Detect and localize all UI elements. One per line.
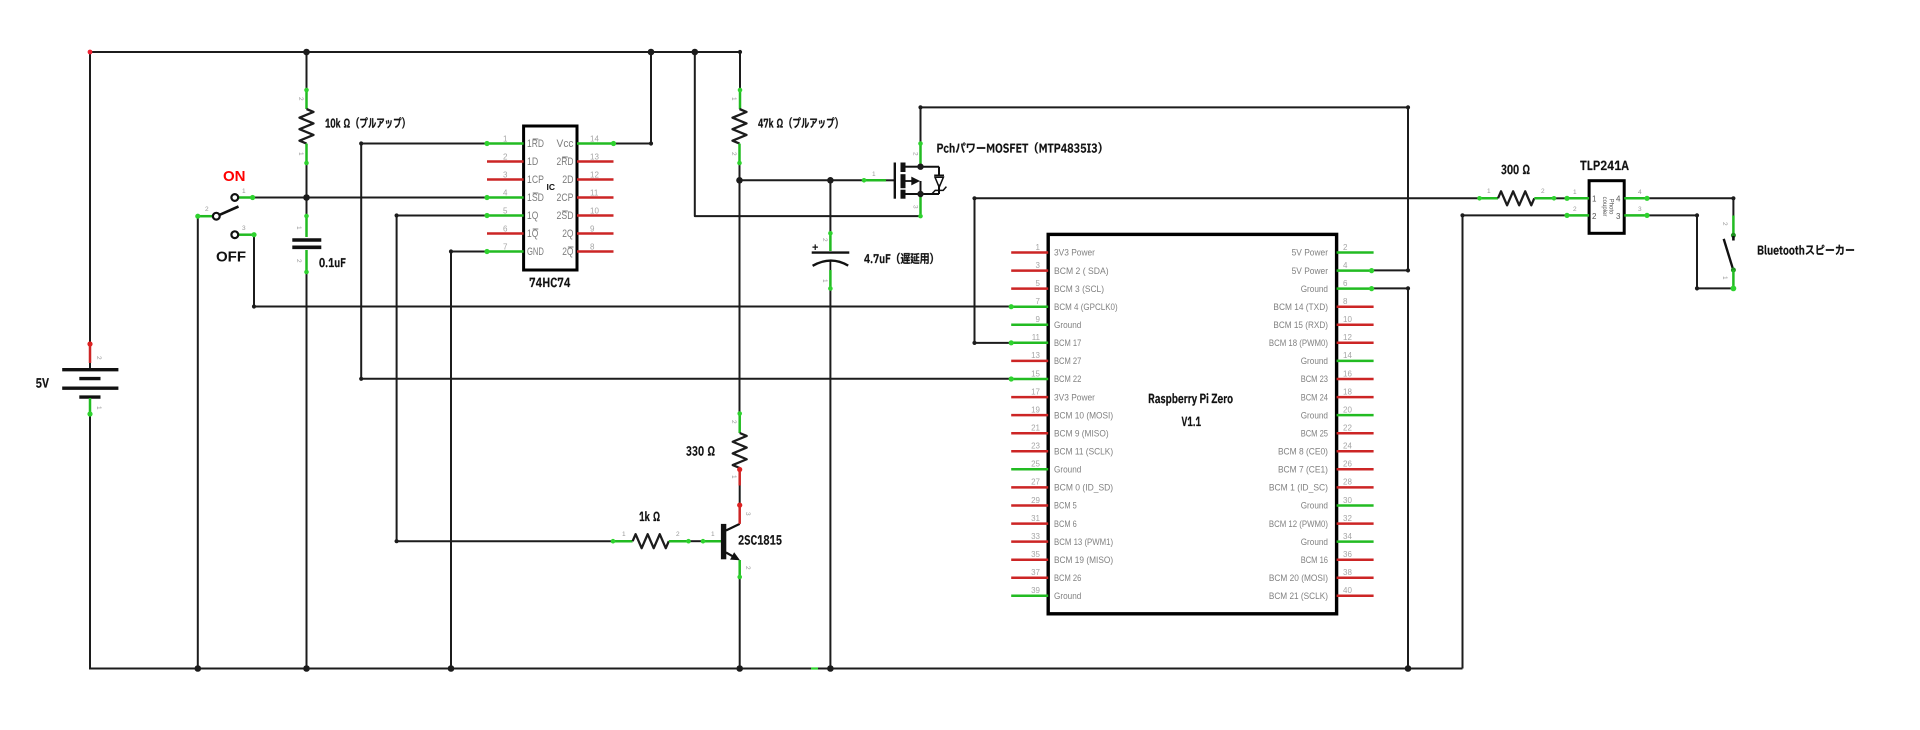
svg-text:2: 2 <box>744 566 751 570</box>
svg-text:20: 20 <box>1343 405 1352 414</box>
svg-text:2: 2 <box>676 531 680 538</box>
svg-text:29: 29 <box>1031 496 1040 505</box>
svg-text:12: 12 <box>590 170 599 179</box>
wire: 47k to gate node <box>739 163 741 180</box>
label: Raspberry Pi Zero <box>1149 393 1233 405</box>
svg-text:21: 21 <box>1031 424 1040 433</box>
node: gate/47k/330 junction <box>736 177 743 184</box>
svg-text:8: 8 <box>590 242 595 251</box>
svg-text:32: 32 <box>1343 514 1352 523</box>
svg-text:1: 1 <box>1592 195 1597 204</box>
RasPi pin 29 (left) and pin 30 (right) with numbers and labels <box>1011 504 1048 507</box>
svg-text:1Q: 1Q <box>527 210 539 222</box>
svg-text:BCM 9 (MISO): BCM 9 (MISO) <box>1054 428 1109 438</box>
svg-text:Photo: Photo <box>1608 199 1614 215</box>
MOSFET body diode <box>934 174 944 176</box>
svg-text:Ground: Ground <box>1301 356 1328 366</box>
svg-text:2Q: 2Q <box>562 228 574 240</box>
svg-text:2Q: 2Q <box>562 246 574 258</box>
label: R1 value 10k ohm pullup <box>325 117 404 128</box>
svg-text:2D: 2D <box>562 174 573 186</box>
svg-text:9: 9 <box>1036 315 1041 324</box>
RasPi pin 17 (left) and pin 18 (right) with numbers and labels <box>1011 396 1048 399</box>
svg-text:1: 1 <box>1487 188 1491 195</box>
IC U1 pin 6 (left) and pin 9 (right) with numbers and labels <box>487 232 524 235</box>
transistor Q1 MOSFET MTP4835I3 <box>919 144 922 165</box>
svg-text:coupler: coupler <box>1601 197 1607 217</box>
svg-text:1: 1 <box>730 475 737 479</box>
svg-text:1: 1 <box>711 531 715 538</box>
svg-text:2: 2 <box>503 152 508 161</box>
svg-text:BCM 21 (SCLK): BCM 21 (SCLK) <box>1269 591 1328 601</box>
IC U1 pin 2 (left) and pin 13 (right) with numbers and labels <box>487 160 524 163</box>
svg-text:Ground: Ground <box>1054 320 1081 330</box>
wire: IC pin5 1Q to 1k resistor <box>397 216 613 542</box>
wire: TLP241A pin4 to speaker switch <box>1647 198 1733 215</box>
svg-text:14: 14 <box>590 134 599 143</box>
svg-text:26: 26 <box>1343 460 1352 469</box>
svg-text:2: 2 <box>95 356 102 360</box>
label: U3 name TLP241A <box>1580 161 1628 170</box>
wire: TLP241A pin2 to ground rail <box>1463 215 1568 668</box>
svg-text:BCM 16: BCM 16 <box>1301 555 1328 565</box>
svg-text:3: 3 <box>242 225 246 232</box>
svg-text:28: 28 <box>1343 478 1352 487</box>
svg-text:2: 2 <box>730 152 737 156</box>
svg-text:Vcc: Vcc <box>557 138 574 150</box>
RasPi pin 25 (left) and pin 26 (right) with numbers and labels <box>1011 468 1048 471</box>
wire: 330 to collector <box>739 486 741 506</box>
svg-text:2: 2 <box>1541 188 1545 195</box>
svg-text:2: 2 <box>730 420 737 424</box>
capacitor C2 4.7uF delay <box>829 233 832 251</box>
svg-text:Ground: Ground <box>1301 284 1328 294</box>
wire: 1k to transistor base <box>689 540 704 542</box>
wire: node A to 0.1uF <box>306 198 308 217</box>
wire: battery minus down <box>89 414 91 669</box>
svg-text:BCM 25: BCM 25 <box>1301 428 1328 438</box>
svg-text:1RD: 1RD <box>527 138 544 150</box>
wire: 5V top rail <box>90 51 740 53</box>
IC U1 pin 7 (left) and pin 8 (right) with numbers and labels <box>487 250 524 253</box>
label: V1.1 <box>1182 417 1201 426</box>
node: rail-Vcc junction <box>648 49 655 56</box>
svg-text:BCM 19 (MISO): BCM 19 (MISO) <box>1054 555 1113 565</box>
svg-text:2: 2 <box>1343 243 1348 252</box>
svg-text:1SD: 1SD <box>527 192 544 204</box>
battery BT1 5V <box>89 344 92 363</box>
label: R2 value 47k ohm pullup <box>758 117 837 128</box>
IC U1 pin 4 (left) and pin 11 (right) with numbers and labels <box>487 196 524 199</box>
svg-text:30: 30 <box>1343 496 1352 505</box>
svg-text:2: 2 <box>295 259 302 263</box>
wire: 4.7uF to ground rail <box>829 289 831 669</box>
RasPi pin 23 (left) and pin 24 (right) with numbers and labels <box>1011 450 1048 453</box>
svg-text:BCM 7 (CE1): BCM 7 (CE1) <box>1278 465 1328 475</box>
svg-text:11: 11 <box>590 188 599 197</box>
svg-text:13: 13 <box>590 152 599 161</box>
bend points <box>738 50 742 54</box>
IC U1 pin 1 (left) and pin 14 (right) with numbers and labels <box>487 142 524 145</box>
svg-text:9: 9 <box>590 224 595 233</box>
label: R5 value 300 ohm <box>1501 165 1529 175</box>
wire: battery plus to rail <box>89 52 91 344</box>
IC U2 Raspberry Pi Zero <box>1048 234 1336 613</box>
svg-text:Ground: Ground <box>1301 410 1328 420</box>
RasPi pin 13 (left) and pin 14 (right) with numbers and labels <box>1011 360 1048 363</box>
RasPi pin 5 (left) and pin 6 (right) with numbers and labels <box>1011 287 1048 290</box>
svg-text:Ground: Ground <box>1301 537 1328 547</box>
wire: RasPi BCM17 pin11 to 300 ohm resistor <box>975 198 1480 343</box>
svg-text:2: 2 <box>1721 222 1728 226</box>
RasPi pin 39 (left) and pin 40 (right) with numbers and labels <box>1011 595 1048 598</box>
switch S1 lever <box>219 207 238 215</box>
RasPi pin 15 (left) and pin 16 (right) with numbers and labels <box>1011 378 1048 381</box>
node: rail-10k junction <box>303 49 310 56</box>
svg-text:13: 13 <box>1031 351 1040 360</box>
svg-text:1: 1 <box>1036 243 1041 252</box>
svg-text:BCM 4 (GPCLK0): BCM 4 (GPCLK0) <box>1054 302 1118 312</box>
label: C1 value 0.1uF <box>319 258 345 267</box>
svg-text:3: 3 <box>744 512 751 516</box>
svg-text:5: 5 <box>1036 279 1041 288</box>
wire: OFF contact to RasPi BCM4 pin7 <box>254 235 1011 307</box>
svg-text:36: 36 <box>1343 550 1352 559</box>
svg-text:1: 1 <box>297 152 304 156</box>
wire: IC pin7 GND to ground rail <box>451 252 487 669</box>
svg-text:1: 1 <box>503 134 508 143</box>
svg-text:BCM 5: BCM 5 <box>1054 501 1077 511</box>
svg-text:OFF: OFF <box>216 249 246 266</box>
svg-text:1Q: 1Q <box>527 228 539 240</box>
svg-text:ON: ON <box>223 168 246 185</box>
wire: MOSFET drain to RasPi 5V pin4 <box>921 107 1409 270</box>
capacitor C1 0.1uF <box>305 216 308 237</box>
svg-text:1: 1 <box>1721 276 1728 280</box>
label: 74HC74 <box>530 278 570 288</box>
svg-text:5: 5 <box>503 206 508 215</box>
svg-text:Ground: Ground <box>1054 465 1081 475</box>
RasPi pin 31 (left) and pin 32 (right) with numbers and labels <box>1011 522 1048 525</box>
svg-text:1: 1 <box>242 188 246 195</box>
svg-text:34: 34 <box>1343 532 1352 541</box>
svg-text:BCM 8 (CE0): BCM 8 (CE0) <box>1278 447 1328 457</box>
svg-text:BCM 22: BCM 22 <box>1054 374 1081 384</box>
RasPi pin 37 (left) and pin 38 (right) with numbers and labels <box>1011 577 1048 580</box>
svg-text:BCM 1 (ID_SC): BCM 1 (ID_SC) <box>1269 483 1328 493</box>
svg-text:2: 2 <box>1592 212 1597 221</box>
svg-text:BCM 24: BCM 24 <box>1301 392 1328 402</box>
label: MOSFET name <box>937 142 1101 153</box>
svg-text:8: 8 <box>1343 297 1348 306</box>
svg-text:Ground: Ground <box>1301 501 1328 511</box>
svg-text:10: 10 <box>590 206 599 215</box>
svg-text:37: 37 <box>1031 568 1040 577</box>
svg-text:BCM 26: BCM 26 <box>1054 573 1081 583</box>
svg-text:17: 17 <box>1031 387 1040 396</box>
svg-text:BCM 15 (RXD): BCM 15 (RXD) <box>1273 320 1328 330</box>
svg-text:5V Power: 5V Power <box>1292 266 1328 276</box>
wire: rail to 10k <box>306 52 308 90</box>
svg-text:2: 2 <box>912 152 919 156</box>
svg-text:1: 1 <box>295 226 302 230</box>
svg-text:IC: IC <box>547 182 556 192</box>
svg-text:12: 12 <box>1343 333 1352 342</box>
svg-text:35: 35 <box>1031 550 1040 559</box>
label: C2 value 4.7uF <box>864 253 933 264</box>
svg-text:39: 39 <box>1031 586 1040 595</box>
svg-text:31: 31 <box>1031 514 1040 523</box>
svg-text:5V Power: 5V Power <box>1292 248 1328 258</box>
wire: IC pin1 1RD to RasPi BCM22 pin15 <box>361 144 1011 379</box>
RasPi pin 7 (left) and pin 8 (right) with numbers and labels <box>1011 305 1048 308</box>
wire: ground bottom rail <box>89 668 1463 670</box>
svg-text:3V3 Power: 3V3 Power <box>1054 248 1095 258</box>
node: gate/4.7uF junction <box>827 177 834 184</box>
wire: 300 ohm to TLP241A pin1 <box>1554 197 1567 199</box>
svg-text:19: 19 <box>1031 405 1040 414</box>
svg-text:1: 1 <box>95 406 102 410</box>
resistor R1 10k pullup <box>305 90 308 109</box>
svg-text:BCM 10 (MOSI): BCM 10 (MOSI) <box>1054 410 1113 420</box>
label: R3 value 330 ohm <box>686 446 714 456</box>
wire: gate node down to 330 resistor <box>739 180 741 413</box>
svg-text:3V3 Power: 3V3 Power <box>1054 392 1095 402</box>
wire: ON switch to IC pin4 <box>253 197 487 199</box>
RasPi pin 27 (left) and pin 28 (right) with numbers and labels <box>1011 486 1048 489</box>
svg-text:1D: 1D <box>527 156 538 168</box>
svg-text:3: 3 <box>1638 206 1642 213</box>
optocoupler U3 TLP241A <box>1589 181 1624 234</box>
svg-text:BCM 2 ( SDA): BCM 2 ( SDA) <box>1054 266 1109 276</box>
svg-text:1: 1 <box>1573 189 1577 196</box>
svg-text:BCM 12 (PWM0): BCM 12 (PWM0) <box>1269 519 1328 529</box>
svg-text:7: 7 <box>503 242 508 251</box>
wire: MOSFET source to 5V rail <box>695 52 921 216</box>
svg-text:2RD: 2RD <box>557 156 574 168</box>
wire: 0.1uF to ground rail <box>306 272 308 669</box>
switch S2 bluetooth speaker <box>1732 216 1735 236</box>
svg-text:6: 6 <box>1343 279 1348 288</box>
svg-text:Ground: Ground <box>1054 591 1081 601</box>
wire: emitter to ground rail <box>739 577 741 669</box>
label: bluetooth speaker <box>1758 245 1854 255</box>
svg-text:18: 18 <box>1343 387 1352 396</box>
IC U1 pin 3 (left) and pin 12 (right) with numbers and labels <box>487 178 524 181</box>
svg-text:4: 4 <box>1638 189 1642 196</box>
RasPi pin 33 (left) and pin 34 (right) with numbers and labels <box>1011 540 1048 543</box>
svg-text:1: 1 <box>872 171 876 178</box>
svg-text:2: 2 <box>1573 206 1577 213</box>
svg-text:BCM 0 (ID_SD): BCM 0 (ID_SD) <box>1054 483 1113 493</box>
svg-text:22: 22 <box>1343 424 1352 433</box>
svg-text:2: 2 <box>205 206 209 213</box>
RasPi pin 11 (left) and pin 12 (right) with numbers and labels <box>1011 342 1048 345</box>
wire: switch pin2 to ground rail <box>197 216 199 668</box>
svg-text:1: 1 <box>821 279 828 283</box>
RasPi pin 21 (left) and pin 22 (right) with numbers and labels <box>1011 432 1048 435</box>
wire: 10k to node A <box>306 163 308 198</box>
wire: rail to 47k <box>739 52 741 90</box>
svg-text:BCM 23: BCM 23 <box>1301 374 1328 384</box>
node: battery plus endpoint (red) <box>88 50 93 55</box>
svg-text:2SD: 2SD <box>557 210 574 222</box>
label: battery value 5V <box>36 378 49 387</box>
IC U1 74HC74 <box>524 126 577 270</box>
svg-text:1: 1 <box>622 531 626 538</box>
svg-text:7: 7 <box>1036 297 1041 306</box>
label: R4 value 1k ohm <box>639 511 659 521</box>
RasPi pin 35 (left) and pin 36 (right) with numbers and labels <box>1011 558 1048 561</box>
svg-text:1: 1 <box>730 97 737 101</box>
wire: RasPi Ground pin6 to ground rail <box>1374 288 1408 668</box>
node: rail-source junction <box>692 49 699 56</box>
svg-text:6: 6 <box>503 224 508 233</box>
svg-text:2CP: 2CP <box>557 192 574 204</box>
svg-text:BCM 6: BCM 6 <box>1054 519 1077 529</box>
svg-text:15: 15 <box>1031 369 1040 378</box>
wire: gate line <box>740 179 865 181</box>
RasPi pin 9 (left) and pin 10 (right) with numbers and labels <box>1011 324 1048 327</box>
label: Q2 name 2SC1815 <box>739 535 782 545</box>
svg-text:10: 10 <box>1343 315 1352 324</box>
IC U1 pin 5 (left) and pin 10 (right) with numbers and labels <box>487 214 524 217</box>
svg-text:33: 33 <box>1031 532 1040 541</box>
node: ground rail junctions <box>195 665 202 672</box>
resistor R4 1k <box>613 540 633 543</box>
svg-text:BCM 17: BCM 17 <box>1054 338 1081 348</box>
svg-text:BCM 20 (MOSI): BCM 20 (MOSI) <box>1269 573 1328 583</box>
svg-text:3: 3 <box>912 205 919 209</box>
svg-text:4: 4 <box>1343 261 1348 270</box>
svg-text:BCM 13 (PWM1): BCM 13 (PWM1) <box>1054 537 1113 547</box>
wire: speaker switch to TLP241A pin3 <box>1647 215 1733 288</box>
svg-text:38: 38 <box>1343 568 1352 577</box>
RasPi pin 1 (left) and pin 2 (right) with numbers and labels <box>1011 251 1048 254</box>
svg-text:2: 2 <box>297 97 304 101</box>
svg-text:BCM 3 (SCL): BCM 3 (SCL) <box>1054 284 1104 294</box>
resistor R5 300 <box>1480 197 1499 200</box>
switch S1 ON/OFF <box>239 196 253 199</box>
svg-text:23: 23 <box>1031 442 1040 451</box>
resistor R3 330 <box>738 414 741 434</box>
svg-text:BCM 18 (PWM0): BCM 18 (PWM0) <box>1269 338 1328 348</box>
svg-text:+: + <box>812 242 818 254</box>
svg-text:4: 4 <box>503 188 508 197</box>
svg-text:3: 3 <box>1616 212 1621 221</box>
node A: switch/10k/0.1uF junction <box>303 194 310 201</box>
wire: IC pin14 Vcc to 5V rail <box>614 52 652 144</box>
svg-text:40: 40 <box>1343 586 1352 595</box>
svg-text:24: 24 <box>1343 442 1352 451</box>
svg-text:BCM 14 (TXD): BCM 14 (TXD) <box>1273 302 1328 312</box>
resistor R2 47k pullup <box>739 90 742 109</box>
transistor Q2 2SC1815 <box>703 540 721 543</box>
node: wire endpoint marker on ground rail <box>811 667 818 669</box>
svg-text:BCM 27: BCM 27 <box>1054 356 1081 366</box>
svg-text:11: 11 <box>1032 333 1041 342</box>
svg-text:3: 3 <box>503 170 508 179</box>
svg-text:2: 2 <box>821 238 828 242</box>
svg-text:27: 27 <box>1031 478 1040 487</box>
svg-text:BCM 11 (SCLK): BCM 11 (SCLK) <box>1054 447 1113 457</box>
wire: gate node to 4.7uF <box>829 180 831 233</box>
svg-text:1CP: 1CP <box>527 174 544 186</box>
svg-text:16: 16 <box>1343 369 1352 378</box>
svg-text:25: 25 <box>1031 460 1040 469</box>
svg-text:3: 3 <box>1036 261 1041 270</box>
svg-text:4: 4 <box>1616 195 1621 204</box>
svg-text:14: 14 <box>1343 351 1352 360</box>
svg-text:GND: GND <box>527 246 544 258</box>
RasPi pin 3 (left) and pin 4 (right) with numbers and labels <box>1011 269 1048 272</box>
RasPi pin 19 (left) and pin 20 (right) with numbers and labels <box>1011 414 1048 417</box>
